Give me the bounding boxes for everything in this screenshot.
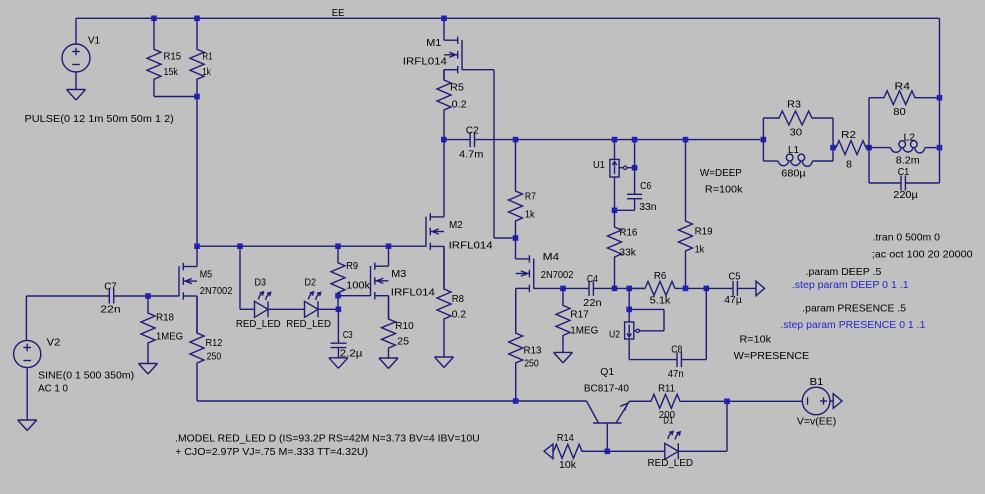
junction R11 right node <box>724 399 730 405</box>
junction C4 left / R17 top <box>560 286 566 292</box>
svg-text:R13: R13 <box>524 345 542 357</box>
svg-text:+ CJO=2.97P VJ=.75 M=.333 TT=4: + CJO=2.97P VJ=.75 M=.333 TT=4.32U) <box>175 446 368 458</box>
junction row139 at C6 <box>632 137 638 143</box>
junction R6 right / R19 bottom <box>683 286 689 292</box>
transistor M3 <box>371 263 389 300</box>
wire C8 right up to row288 <box>705 288 707 359</box>
svg-text:R1: R1 <box>202 51 212 63</box>
svg-text:1k: 1k <box>202 66 211 78</box>
text label: V2 <box>47 337 61 349</box>
svg-text:10k: 10k <box>559 459 577 471</box>
svg-text:EE: EE <box>332 7 345 19</box>
resistor R10 <box>382 296 396 358</box>
text label: M1 <box>426 37 441 49</box>
ground under V2 <box>18 420 37 431</box>
wire M1 gate to R7 bottom node <box>494 237 516 239</box>
wire U2 wiper loop right <box>663 309 665 330</box>
text label: 4.7m <box>459 149 484 161</box>
svg-text:R=100k: R=100k <box>705 184 743 196</box>
text label: RED_LED <box>286 318 331 330</box>
svg-text:33k: 33k <box>619 247 636 259</box>
text label: U2 <box>609 328 620 340</box>
svg-text:250: 250 <box>524 358 539 370</box>
svg-text:SINE(0 1 500 350m): SINE(0 1 500 350m) <box>38 370 134 382</box>
svg-text:R15: R15 <box>164 51 182 63</box>
text label: R15 <box>164 51 182 63</box>
svg-text:1MEG: 1MEG <box>156 330 183 342</box>
ground under V1 <box>67 90 86 101</box>
junction row246 at M3 drain <box>386 243 392 249</box>
wire row139 output node to filter <box>516 139 764 141</box>
svg-text:V=v(EE): V=v(EE) <box>797 416 836 428</box>
transistor Q1 npn <box>587 401 630 451</box>
resistor R5 <box>437 70 451 140</box>
svg-text:C1: C1 <box>898 166 910 178</box>
capacitor C3 <box>330 309 346 358</box>
wire R15 top lead <box>153 18 155 32</box>
resistor R2 <box>833 141 869 155</box>
text label: Q1 <box>600 366 614 378</box>
text label: 2.2µ <box>340 348 363 360</box>
svg-text:C5: C5 <box>729 271 741 283</box>
text label: 1k <box>202 66 211 78</box>
text label: C7 <box>104 281 117 293</box>
resistor R3 <box>763 111 833 125</box>
text label: C8 <box>671 343 682 355</box>
wire M4 gate lead <box>534 287 563 289</box>
svg-text:M5: M5 <box>200 269 212 281</box>
text label: RED_LED <box>236 318 281 330</box>
text label: 200 <box>659 409 675 421</box>
svg-text:1k: 1k <box>525 209 535 221</box>
wire U2 wiper loop top <box>629 308 664 310</box>
text label: R7 <box>525 190 536 202</box>
wire V2 bottom lead <box>26 368 28 420</box>
text label: R4 <box>895 81 911 93</box>
text label: 47µ <box>724 294 742 306</box>
wire R4/L2/C1 block left vertical <box>868 98 870 183</box>
junction row246 at LED branch <box>237 243 243 249</box>
junction C5 left / C8 right <box>704 286 710 292</box>
svg-text:C7: C7 <box>104 281 117 293</box>
text label: 5.1k <box>650 295 671 307</box>
svg-text:33n: 33n <box>639 201 657 213</box>
inductor L2 <box>869 141 940 153</box>
svg-text:2N7002: 2N7002 <box>541 269 574 281</box>
svg-text:L1: L1 <box>788 144 799 156</box>
text label: 1MEG <box>156 330 183 342</box>
svg-text:D2: D2 <box>305 276 317 288</box>
wire U1 top lead <box>614 140 616 160</box>
svg-text:C2: C2 <box>466 124 479 136</box>
junction U2 top on row288 <box>626 286 632 292</box>
resistor R16 <box>608 210 622 288</box>
text label: R2 <box>841 129 856 141</box>
wire M1 source to R5 <box>443 70 445 80</box>
resistor R11 <box>630 394 728 408</box>
output port flag after B1 <box>833 394 842 409</box>
text label: D1 <box>663 415 673 427</box>
wire right-side vertical from EE to filter block <box>939 18 941 183</box>
text label: R17 <box>570 309 589 321</box>
text label: R5 <box>450 82 464 94</box>
text label: ;ac oct 100 20 20000 <box>872 249 973 261</box>
capacitor C5 <box>706 281 755 296</box>
wire M2 source to R8 <box>443 246 445 289</box>
wire U2 bottom lead <box>628 339 630 360</box>
wire EE top rail <box>76 17 940 19</box>
junction M1 drain on EE <box>441 16 447 22</box>
text label: 0.2 <box>452 98 467 110</box>
junction rail at R13 <box>513 398 519 404</box>
wire U2 top lead <box>628 288 630 322</box>
text label: 1k <box>525 209 535 221</box>
svg-text:Q1: Q1 <box>600 366 614 378</box>
text label: IRFL014 <box>391 287 435 299</box>
junction row246 at R9 <box>335 243 341 249</box>
text label: .step param DEEP 0 1 .1 <box>792 279 909 291</box>
resistor R14 <box>553 444 607 458</box>
svg-text:22n: 22n <box>583 297 602 309</box>
svg-text:L2: L2 <box>904 132 916 144</box>
text label: .step param PRESENCE 0 1 .1 <box>781 319 926 331</box>
text label: C4 <box>587 273 598 285</box>
svg-text:2.2µ: 2.2µ <box>340 348 363 360</box>
text label: PULSE(0 12 1m 50m 50m 1 2) <box>25 113 174 125</box>
junction U1 top <box>612 137 618 143</box>
resistor R9 <box>331 246 345 309</box>
svg-text:30: 30 <box>790 127 803 139</box>
text label: W=DEEP <box>700 167 742 179</box>
svg-text:AC 1 0: AC 1 0 <box>38 383 68 395</box>
wire R3/L1 block left vertical <box>762 118 764 161</box>
wire U1 bottom lead <box>614 177 616 210</box>
wire M3 gate lead <box>338 295 371 297</box>
text label: R6 <box>654 270 667 282</box>
resistor R12 <box>190 296 204 401</box>
resistor R17 <box>556 288 570 352</box>
wire C2 node down to M2 drain <box>443 140 445 217</box>
text label: 22n <box>100 304 120 316</box>
text label: R1 <box>202 51 212 63</box>
svg-text:W=PRESENCE: W=PRESENCE <box>734 350 810 362</box>
text label: 1k <box>695 243 705 255</box>
text label: R9 <box>346 260 358 272</box>
svg-text:8.2m: 8.2m <box>896 155 920 167</box>
wire R1 top lead <box>196 18 198 32</box>
svg-text:R9: R9 <box>346 260 358 272</box>
wire V2 top lead <box>25 296 27 341</box>
resistor R7 <box>509 140 523 238</box>
svg-text:R17: R17 <box>570 309 589 321</box>
ground under C3 <box>329 358 348 369</box>
wire M5 gate lead <box>148 295 179 297</box>
text label: W=PRESENCE <box>734 350 810 362</box>
svg-text:;ac oct 100 20 20000: ;ac oct 100 20 20000 <box>872 249 973 261</box>
potentiometer U2 <box>625 322 640 339</box>
svg-text:47µ: 47µ <box>724 294 742 306</box>
text label: V1 <box>88 34 100 46</box>
svg-text:.tran 0 500m 0: .tran 0 500m 0 <box>873 231 941 243</box>
transistor M2 <box>426 213 444 250</box>
svg-text:V2: V2 <box>47 337 61 349</box>
svg-text:8: 8 <box>846 159 852 171</box>
svg-text:.param DEEP .5: .param DEEP .5 <box>806 266 882 278</box>
svg-text:.step param DEEP 0 1 .1: .step param DEEP 0 1 .1 <box>792 279 909 291</box>
wire V1 top lead <box>75 18 77 44</box>
LED D3 <box>255 292 271 317</box>
text label: 2N7002 <box>200 285 233 297</box>
svg-text:0.2: 0.2 <box>452 308 467 320</box>
svg-text:M3: M3 <box>391 268 406 280</box>
wire bottom rail <box>197 400 587 402</box>
svg-text:0.2: 0.2 <box>452 98 467 110</box>
resistor R8 <box>437 246 451 357</box>
svg-text:M2: M2 <box>449 219 463 231</box>
svg-text:R12: R12 <box>206 337 223 349</box>
wire row246 <box>197 245 426 247</box>
svg-text:680µ: 680µ <box>781 168 805 180</box>
junction R18 top <box>145 293 151 299</box>
text label: D2 <box>305 276 317 288</box>
svg-text:15k: 15k <box>164 66 179 78</box>
junction U1 bottom / R16 top <box>612 208 618 214</box>
wire M4 source to R13 <box>515 288 517 333</box>
resistor R18 <box>141 296 155 360</box>
output port flag after C5 <box>756 281 765 296</box>
junction C2 right node <box>513 137 519 143</box>
resistor R1 <box>190 32 204 97</box>
text label: IRFL014 <box>449 239 493 251</box>
text label: R3 <box>787 99 801 111</box>
text label: V=v(EE) <box>797 416 836 428</box>
LED D2 <box>305 292 321 317</box>
input port flag at R14 <box>544 444 553 459</box>
svg-text:U2: U2 <box>609 328 620 340</box>
text label: 25 <box>397 336 409 348</box>
text label: .MODEL RED_LED D (IS=93.2P RS=42M N=3.73 BV=4 IBV=10U <box>175 432 480 444</box>
svg-text:RED_LED: RED_LED <box>286 318 331 330</box>
wire up to R11 node <box>726 401 728 451</box>
svg-text:R2: R2 <box>841 129 856 141</box>
wire M4 drain lead <box>515 238 517 259</box>
text label: 0.2 <box>452 308 467 320</box>
ground under R10 <box>379 358 398 369</box>
svg-text:R8: R8 <box>452 293 464 305</box>
text label: 250 <box>207 350 222 362</box>
svg-text:U1: U1 <box>593 159 605 171</box>
junction R9/M3 gate node <box>335 293 341 299</box>
text label: L2 <box>904 132 916 144</box>
svg-text:V1: V1 <box>88 34 100 46</box>
text label: R=10k <box>740 333 772 345</box>
wire M1 gate lead <box>462 69 494 71</box>
wire D2 to C3 node <box>318 308 338 310</box>
junction row246 at M5 drain <box>194 243 200 249</box>
junction C4 right node <box>612 286 618 292</box>
text label: 33n <box>639 201 657 213</box>
junction R4 right <box>937 95 943 101</box>
svg-text:250: 250 <box>207 350 222 362</box>
junction R15/R1 bottom <box>194 94 200 100</box>
svg-text:R18: R18 <box>156 311 174 323</box>
svg-text:47n: 47n <box>668 368 684 380</box>
svg-text:C8: C8 <box>671 343 682 355</box>
wire row288 M4 gate to R6 <box>615 287 646 289</box>
wire LED branch down <box>239 246 241 309</box>
junction row139 at filter input <box>761 137 767 143</box>
capacitor C7 <box>26 289 148 304</box>
svg-text:25: 25 <box>397 336 409 348</box>
junction C2 left node <box>441 137 447 143</box>
svg-text:D3: D3 <box>255 276 267 288</box>
behavioral source B1 <box>802 387 830 415</box>
ground under R18 <box>139 364 158 375</box>
junction base/D1 row <box>605 449 611 455</box>
svg-text:R19: R19 <box>695 226 713 238</box>
capacitor C8 <box>677 352 706 367</box>
text label: R8 <box>452 293 464 305</box>
svg-text:100k: 100k <box>346 280 371 292</box>
text label: C2 <box>466 124 479 136</box>
text label: L1 <box>788 144 799 156</box>
text label: .param DEEP .5 <box>806 266 882 278</box>
text label: C5 <box>729 271 741 283</box>
svg-text:R11: R11 <box>658 383 675 395</box>
text label: 2N7002 <box>541 269 574 281</box>
junction L2 right <box>937 145 943 151</box>
svg-text:B1: B1 <box>810 376 824 388</box>
svg-text:R7: R7 <box>525 190 536 202</box>
text label: + CJO=2.97P VJ=.75 M=.333 TT=4.32U) <box>175 446 368 458</box>
text label: 30 <box>790 127 803 139</box>
ground under R17 <box>554 352 573 363</box>
text label: 250 <box>524 358 539 370</box>
svg-text:R4: R4 <box>895 81 911 93</box>
text label: R12 <box>206 337 223 349</box>
svg-text:R5: R5 <box>450 82 464 94</box>
wire R15-R1 bottom join <box>154 96 197 98</box>
text label: 22n <box>583 297 602 309</box>
text label: .tran 0 500m 0 <box>873 231 941 243</box>
text label: IRFL014 <box>403 56 447 68</box>
svg-text:M1: M1 <box>426 37 441 49</box>
text label: 8 <box>846 159 852 171</box>
svg-text:22n: 22n <box>100 304 120 316</box>
svg-text:R14: R14 <box>557 432 574 444</box>
svg-text:PULSE(0 12 1m 50m 50m 1 2): PULSE(0 12 1m 50m 50m 1 2) <box>25 113 174 125</box>
svg-text:D1: D1 <box>663 415 673 427</box>
svg-text:80: 80 <box>893 106 906 118</box>
text label: R16 <box>619 227 637 239</box>
svg-text:.step param PRESENCE 0 1 .1: .step param PRESENCE 0 1 .1 <box>781 319 926 331</box>
wire C6 bottom to U1 bottom <box>615 209 635 211</box>
svg-text:M4: M4 <box>543 251 560 263</box>
wire divider node down to row246 <box>196 97 198 247</box>
wire to B1 <box>727 400 802 402</box>
text label: 100k <box>346 280 371 292</box>
text label: R10 <box>395 320 414 332</box>
wire B1 to flag <box>830 400 833 402</box>
svg-text:RED_LED: RED_LED <box>236 318 281 330</box>
text label: M2 <box>449 219 463 231</box>
text label: 8.2m <box>896 155 920 167</box>
svg-text:C3: C3 <box>343 329 353 341</box>
junction R1 top <box>194 16 200 22</box>
wire to D3 anode <box>240 308 255 310</box>
text label: M3 <box>391 268 406 280</box>
svg-text:C6: C6 <box>640 180 651 192</box>
wire U2 bottom to C8 <box>629 359 677 361</box>
svg-text:RED_LED: RED_LED <box>648 457 694 469</box>
svg-text:IRFL014: IRFL014 <box>391 287 435 299</box>
text label: R11 <box>658 383 675 395</box>
text label: R14 <box>557 432 574 444</box>
svg-text:R6: R6 <box>654 270 667 282</box>
junction U1 wiper node <box>632 165 638 171</box>
text label: RED_LED <box>648 457 694 469</box>
junction R2 right <box>866 145 872 151</box>
wire D1 cathode to corner <box>678 450 727 452</box>
capacitor C2 <box>444 132 516 147</box>
transistor M1 <box>444 37 462 74</box>
svg-text:IRFL014: IRFL014 <box>403 56 447 68</box>
wire V1 bottom lead <box>75 72 77 90</box>
svg-text:1k: 1k <box>695 243 705 255</box>
LED D1 <box>665 431 680 459</box>
text label: 10k <box>559 459 577 471</box>
text label: EE <box>332 7 345 19</box>
svg-text:2N7002: 2N7002 <box>200 285 233 297</box>
capacitor C4 <box>563 281 615 296</box>
svg-text:220µ: 220µ <box>893 189 918 201</box>
inductor L1 <box>763 154 833 166</box>
text label: 15k <box>164 66 179 78</box>
voltage source V1 <box>62 44 90 72</box>
svg-text:BC817-40: BC817-40 <box>584 383 629 395</box>
text label: .param PRESENCE .5 <box>802 303 906 315</box>
svg-text:R16: R16 <box>619 227 637 239</box>
resistor R6 <box>629 281 706 295</box>
text label: 47n <box>668 368 684 380</box>
text label: BC817-40 <box>584 383 629 395</box>
text label: U1 <box>593 159 605 171</box>
text label: C3 <box>343 329 353 341</box>
text label: M4 <box>543 251 560 263</box>
text label: 680µ <box>781 168 805 180</box>
wire D1 row to anode <box>607 450 665 452</box>
svg-text:W=DEEP: W=DEEP <box>700 167 742 179</box>
text label: D3 <box>255 276 267 288</box>
junction R2 left <box>830 145 836 151</box>
text label: 1MEG <box>570 324 598 336</box>
text label: B1 <box>810 376 824 388</box>
resistor R4 <box>869 91 940 105</box>
wire Q1 emitter to R11 <box>630 400 652 402</box>
svg-text:4.7m: 4.7m <box>459 149 484 161</box>
text label: 33k <box>619 247 636 259</box>
resistor R13 <box>509 288 523 401</box>
capacitor C6 <box>627 168 642 211</box>
resistor R19 <box>679 140 693 289</box>
wire D3 to D2 <box>268 308 305 310</box>
wire M1 drain lead <box>443 18 445 40</box>
text label: SINE(0 1 500 350m) <box>38 370 134 382</box>
junction U2 wiper loop node <box>626 307 632 313</box>
junction LED/C3 node <box>336 307 342 313</box>
svg-text:1MEG: 1MEG <box>570 324 598 336</box>
junction R7 bottom / M4 drain <box>513 235 519 241</box>
